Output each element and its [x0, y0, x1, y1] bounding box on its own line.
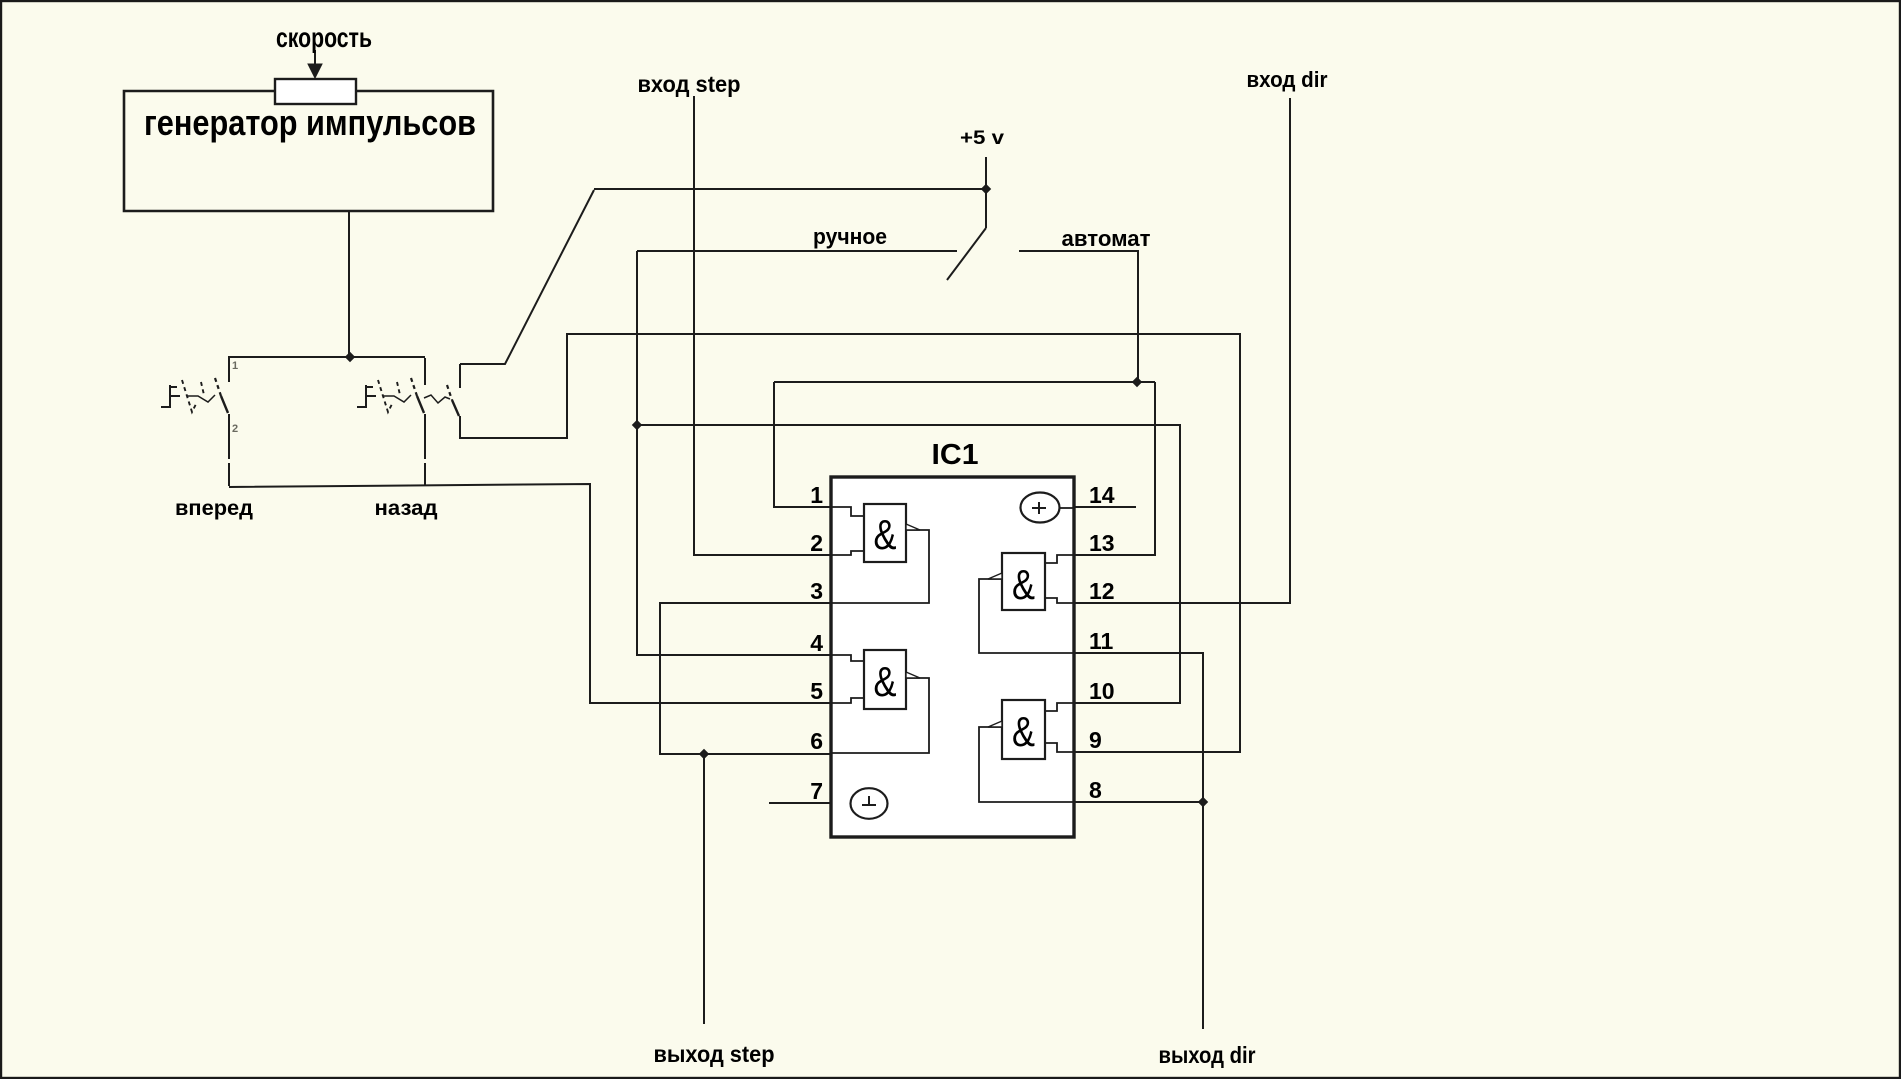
svg-text:выход dir: выход dir	[1159, 1042, 1256, 1068]
svg-text:11: 11	[1089, 628, 1114, 654]
svg-text:автомат: автомат	[1062, 226, 1151, 251]
svg-text:вперед: вперед	[175, 497, 253, 520]
svg-text:2: 2	[810, 530, 823, 556]
svg-text:4: 4	[810, 630, 823, 656]
svg-text:&: &	[1012, 561, 1035, 608]
svg-text:9: 9	[1089, 727, 1102, 753]
svg-text:5: 5	[810, 678, 823, 704]
svg-text:генератор импульсов: генератор импульсов	[144, 102, 476, 143]
svg-text:назад: назад	[375, 497, 438, 520]
svg-text:14: 14	[1089, 482, 1115, 508]
svg-text:8: 8	[1089, 777, 1102, 803]
svg-text:ручное: ручное	[813, 224, 887, 249]
svg-text:13: 13	[1089, 530, 1115, 556]
svg-text:+5 v: +5 v	[960, 128, 1004, 149]
svg-text:вход step: вход step	[638, 71, 741, 97]
svg-text:10: 10	[1089, 678, 1115, 704]
svg-text:7: 7	[810, 778, 823, 804]
svg-text:&: &	[874, 511, 897, 558]
svg-text:&: &	[1012, 708, 1035, 755]
svg-text:12: 12	[1089, 578, 1115, 604]
svg-text:1: 1	[232, 360, 238, 372]
svg-text:3: 3	[810, 578, 823, 604]
svg-text:1: 1	[810, 482, 823, 508]
svg-text:скорость: скорость	[276, 22, 372, 53]
svg-text:IC1: IC1	[932, 439, 979, 471]
svg-text:&: &	[874, 658, 897, 705]
svg-text:2: 2	[232, 423, 238, 435]
svg-text:вход dir: вход dir	[1247, 67, 1328, 92]
svg-text:6: 6	[810, 728, 823, 754]
svg-text:выход step: выход step	[654, 1041, 775, 1067]
